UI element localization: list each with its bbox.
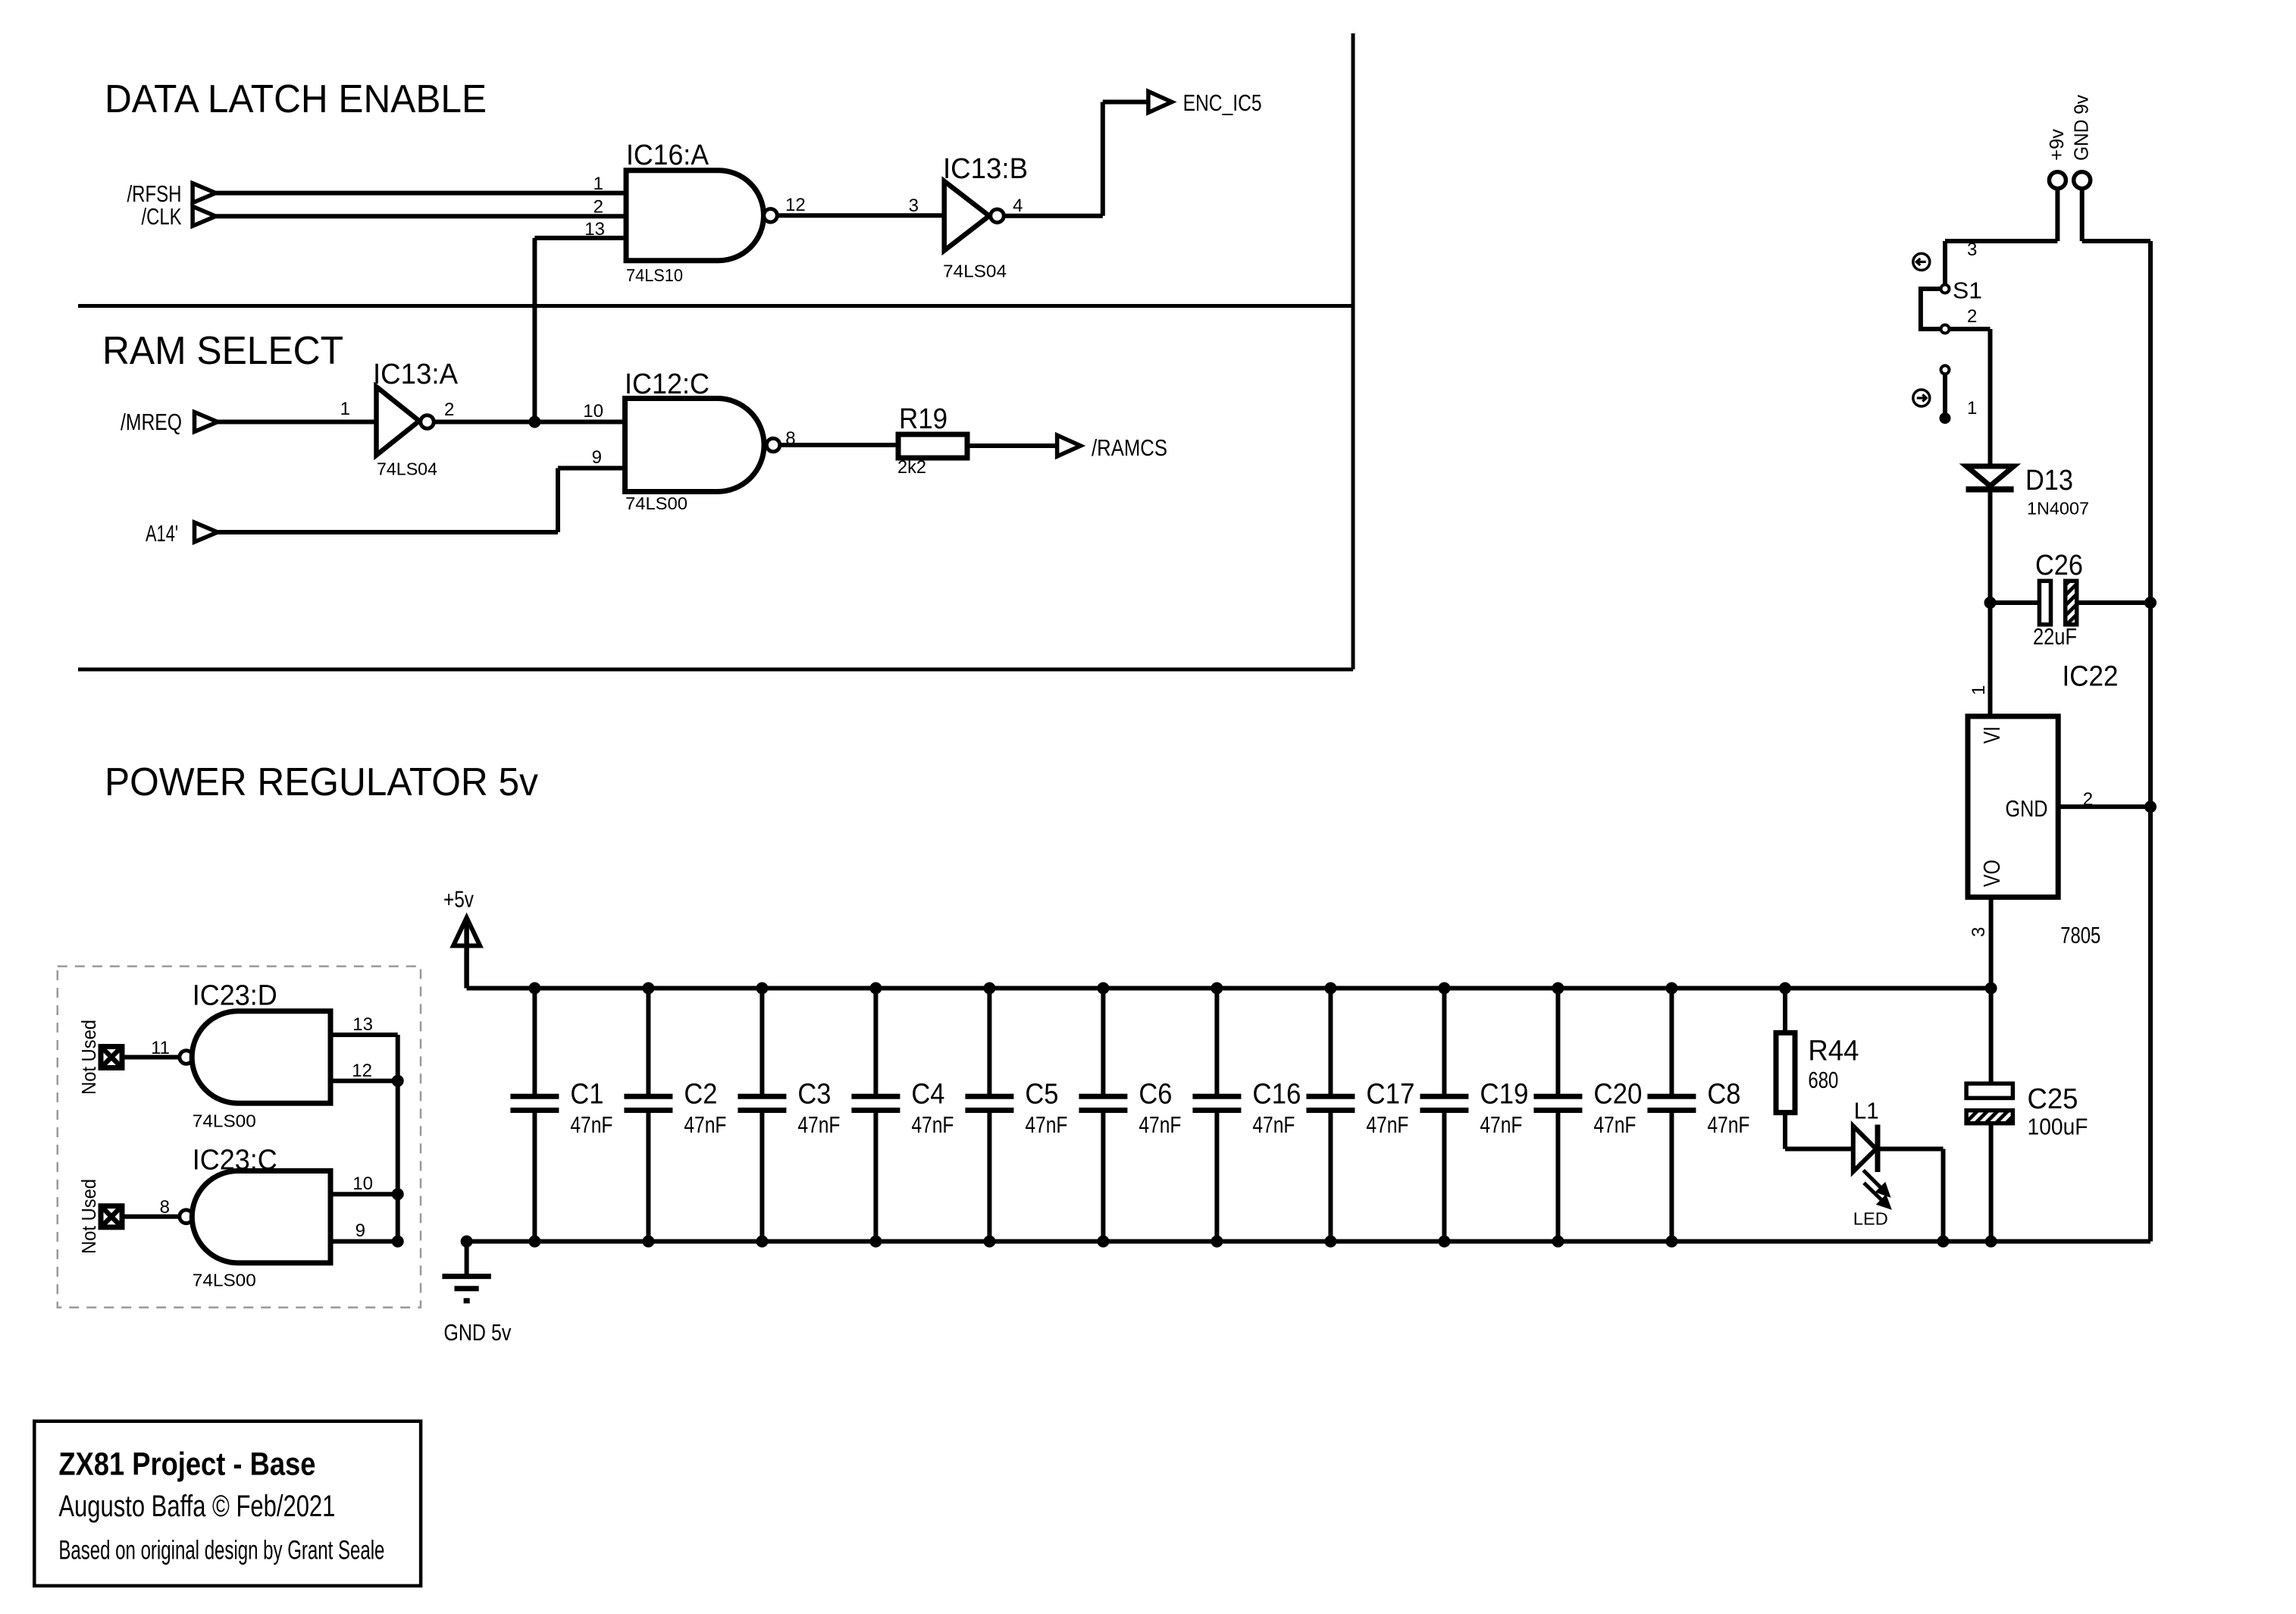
not-used terminal (IC23:D pin11)	[101, 1047, 122, 1068]
capacitor C25 plus plate	[1966, 1083, 2013, 1098]
capacitor C4 47nF	[873, 989, 878, 1095]
section right border	[1352, 33, 1355, 669]
svg-text:1: 1	[340, 399, 350, 419]
LED light arrow 1	[1863, 1171, 1887, 1195]
GND rail	[467, 1239, 2150, 1244]
svg-text:13: 13	[352, 1014, 373, 1035]
svg-text:Augusto Baffa © Feb/2021: Augusto Baffa © Feb/2021	[58, 1490, 335, 1523]
svg-text:74LS04: 74LS04	[377, 459, 437, 479]
wire /RFSH to IC16 pin1	[216, 191, 626, 196]
node pin12 junction	[392, 1075, 404, 1087]
wire IC12:C pin9 stub	[558, 466, 625, 471]
svg-text:/CLK: /CLK	[142, 203, 182, 230]
output port ENC_IC5 arrow	[1148, 92, 1172, 113]
wire LED to GND rail horizontal	[1878, 1147, 1944, 1152]
svg-text:47nF: 47nF	[570, 1111, 612, 1138]
svg-text:9: 9	[356, 1221, 365, 1241]
wire xbox to IC23:D	[122, 1055, 180, 1060]
capacitor C26 plus plate	[2039, 581, 2050, 625]
svg-text:74LS00: 74LS00	[625, 494, 688, 513]
svg-text:POWER REGULATOR 5v: POWER REGULATOR 5v	[105, 760, 538, 804]
diode D13 cathode bar	[1966, 487, 2014, 493]
svg-text:4: 4	[1013, 196, 1023, 216]
svg-text:DATA LATCH ENABLE: DATA LATCH ENABLE	[105, 77, 487, 121]
switch S1 pin1 terminal dot	[1940, 412, 1951, 424]
svg-text:C6: C6	[1139, 1079, 1172, 1111]
svg-text:1: 1	[1969, 685, 1989, 695]
wire S1 pin2 down to D13	[1988, 329, 1993, 466]
svg-text:9: 9	[592, 447, 602, 468]
wire /CLK to IC16 pin2	[216, 214, 626, 218]
port /CLK triangle	[193, 206, 216, 226]
wire IC13:B out	[1004, 214, 1103, 218]
svg-text:C25: C25	[2028, 1083, 2078, 1115]
svg-text:47nF: 47nF	[1366, 1111, 1408, 1138]
wire IC13:A out to IC12:C pin10	[434, 420, 625, 425]
svg-text:IC13:B: IC13:B	[943, 153, 1028, 185]
wire IC16 pin13 horizontal	[534, 236, 626, 240]
wire pin9 vertical	[556, 469, 560, 533]
svg-text:10: 10	[583, 401, 603, 422]
capacitor C25 hatched plate	[1966, 1111, 2013, 1124]
svg-text:LED: LED	[1853, 1208, 1888, 1228]
capacitor C16 47nF	[1214, 989, 1219, 1095]
svg-text:7805: 7805	[2060, 922, 2100, 948]
svg-text:3: 3	[1969, 927, 1989, 937]
svg-text:12: 12	[352, 1061, 372, 1081]
svg-text:R19: R19	[899, 403, 948, 435]
wire +9v to S1 pin3	[1943, 241, 1947, 284]
svg-text:100uF: 100uF	[2028, 1113, 2088, 1139]
svg-text:RAM SELECT: RAM SELECT	[102, 329, 343, 373]
svg-text:2: 2	[2083, 789, 2093, 810]
wire IC16 out to IC13:B	[778, 213, 944, 218]
svg-text:Not Used: Not Used	[77, 1179, 100, 1254]
svg-text:1: 1	[1967, 398, 1977, 418]
wire R44 to LED	[1785, 1147, 1853, 1152]
svg-text:C4: C4	[911, 1079, 944, 1111]
svg-text:R44: R44	[1808, 1036, 1859, 1067]
svg-text:ZX81 Project - Base: ZX81 Project - Base	[58, 1446, 315, 1482]
svg-text:IC16:A: IC16:A	[626, 139, 709, 171]
svg-text:IC23:C: IC23:C	[193, 1144, 277, 1176]
svg-text:47nF: 47nF	[1252, 1111, 1295, 1138]
svg-text:680: 680	[1808, 1067, 1838, 1093]
wire xbox to IC23:C	[122, 1214, 180, 1219]
node C25 on +5v rail	[1985, 983, 1997, 995]
svg-text:/MREQ: /MREQ	[121, 409, 182, 435]
wire IC22 VO down to +5v rail	[1989, 897, 1994, 988]
NAND gate IC12:C body 74LS00	[625, 399, 765, 492]
svg-text:C19: C19	[1480, 1079, 1528, 1111]
svg-text:47nF: 47nF	[1593, 1111, 1636, 1138]
switch S1 other throw contact	[1941, 365, 1950, 374]
bubble IC23:C output	[180, 1210, 193, 1224]
svg-text:8: 8	[160, 1197, 170, 1218]
svg-text:S1: S1	[1953, 277, 1982, 304]
svg-text:C20: C20	[1593, 1079, 1642, 1111]
wire GND 9v right	[2082, 239, 2150, 243]
LED L1 triangle	[1853, 1126, 1876, 1171]
switch S1 throw wire	[1943, 375, 1947, 413]
svg-text:13: 13	[584, 219, 605, 240]
wire R44 bottom	[1783, 1113, 1787, 1149]
svg-text:3: 3	[909, 196, 919, 216]
node LED on GND rail	[1937, 1236, 1950, 1248]
svg-text:1: 1	[594, 174, 603, 194]
svg-text:+9v: +9v	[2045, 129, 2068, 161]
capacitor C1 47nF	[532, 989, 537, 1095]
ground symbol GND 5v	[442, 1274, 490, 1279]
svg-text:1N4007: 1N4007	[2027, 499, 2089, 519]
port /MREQ triangle	[195, 412, 218, 432]
capacitor C5 47nF	[987, 989, 991, 1095]
node pin10 junction	[392, 1188, 404, 1200]
svg-text:IC13:A: IC13:A	[373, 359, 459, 390]
svg-text:47nF: 47nF	[1139, 1111, 1181, 1138]
switch S1 lever bracket	[1921, 289, 1940, 329]
svg-text:47nF: 47nF	[1480, 1111, 1522, 1138]
node R44 on +5v rail	[1779, 983, 1791, 995]
wire IC23:C pin9 stub	[330, 1239, 398, 1244]
svg-text:2k2: 2k2	[897, 457, 926, 478]
wire R44 top	[1783, 989, 1787, 1033]
svg-text:VI: VI	[1978, 726, 2005, 744]
svg-text:C5: C5	[1025, 1079, 1058, 1111]
bubble IC13:A output	[421, 415, 434, 429]
wire C25 bottom	[1989, 1124, 1994, 1242]
wire R19 to /RAMCS	[967, 443, 1057, 448]
port /RFSH triangle	[193, 183, 216, 203]
svg-text:/RAMCS: /RAMCS	[1092, 434, 1167, 461]
wire to ground symbol	[465, 1242, 469, 1277]
svg-text:VO: VO	[1978, 860, 2005, 887]
node junction pin2/pin13/pin10	[528, 416, 540, 428]
capacitor C6 47nF	[1101, 989, 1105, 1095]
NAND gate IC16:A body 74LS10	[626, 171, 763, 261]
svg-text:IC12:C: IC12:C	[625, 368, 709, 400]
output port /RAMCS arrow	[1057, 435, 1081, 456]
wire C26 node down to IC22 VI	[1988, 603, 1993, 716]
svg-text:74LS10: 74LS10	[626, 265, 683, 285]
svg-text:10: 10	[352, 1174, 373, 1194]
wire +9v left	[1945, 239, 2057, 243]
svg-text:C8: C8	[1707, 1079, 1740, 1111]
title block box	[34, 1421, 421, 1586]
svg-text:74LS04: 74LS04	[943, 262, 1007, 281]
capacitor C20 47nF	[1555, 989, 1560, 1095]
terminal GND 9v circle	[2074, 172, 2091, 189]
wire C26 to GND rail	[2077, 600, 2150, 605]
capacitor C19 47nF	[1442, 989, 1446, 1095]
resistor R19 body	[898, 434, 967, 458]
svg-text:47nF: 47nF	[1707, 1111, 1749, 1138]
svg-text:L1: L1	[1854, 1097, 1879, 1124]
switch S1 pin3 contact	[1941, 285, 1950, 293]
NAND gate IC23:C body 74LS00 (mirrored)	[192, 1171, 330, 1263]
wire +9v down	[2055, 189, 2060, 241]
bubble IC12:C output	[766, 438, 780, 452]
svg-text:D13: D13	[2025, 465, 2073, 497]
svg-text:Based on original design by Gr: Based on original design by Grant Seale	[58, 1536, 384, 1565]
svg-text:C16: C16	[1252, 1079, 1301, 1111]
svg-text:+5v: +5v	[443, 885, 474, 912]
wire A14' to pin9	[218, 530, 558, 534]
inverter IC13:A 74LS04	[377, 387, 420, 455]
svg-text:2: 2	[594, 197, 603, 218]
bubble IC23:D output	[180, 1051, 193, 1064]
wire IC23:D pin12	[330, 1079, 398, 1083]
capacitor C3 47nF	[760, 989, 764, 1095]
section divider: DATA LATCH ENABLE / RAM SELECT	[78, 304, 1353, 308]
switch S1 actuator symbol (up)	[1913, 253, 1930, 270]
terminal +9v circle	[2049, 172, 2066, 189]
resistor R44 body	[1776, 1033, 1795, 1112]
svg-text:12: 12	[785, 195, 806, 215]
svg-text:47nF: 47nF	[911, 1111, 954, 1138]
port A14' triangle	[195, 522, 218, 542]
NAND gate IC23:D body 74LS00 (mirrored)	[192, 1011, 330, 1104]
node C25 on GND rail	[1985, 1236, 1997, 1248]
capacitor C17 47nF	[1328, 989, 1333, 1095]
wire IC16 pin13 vertical to node	[532, 238, 537, 422]
wire to ENC_IC5 arrow	[1103, 100, 1148, 105]
svg-text:A14': A14'	[146, 520, 178, 547]
svg-text:2: 2	[1967, 306, 1977, 327]
svg-text:3: 3	[1967, 240, 1977, 260]
svg-text:22uF: 22uF	[2033, 623, 2077, 650]
wire IC23 feedback bus vertical	[396, 1035, 400, 1242]
power flag +5v arrow	[453, 918, 480, 946]
svg-text:2: 2	[444, 400, 454, 420]
node C26 on GND line	[2144, 597, 2157, 609]
wire GND 9v down	[2080, 189, 2085, 241]
node GND stub junction	[461, 1236, 473, 1248]
bubble IC16:A output	[764, 208, 778, 222]
wire up to ENC_IC5	[1101, 102, 1105, 216]
svg-text:C3: C3	[797, 1079, 831, 1111]
capacitor C26 hatched plate	[2066, 581, 2077, 625]
diode D13 1N4007 triangle	[1966, 466, 2013, 486]
wire IC23:D pin13	[330, 1033, 398, 1037]
svg-text:Not Used: Not Used	[77, 1020, 100, 1095]
capacitor C8 47nF	[1669, 989, 1674, 1095]
switch S1 pin2 contact	[1941, 325, 1950, 334]
svg-text:47nF: 47nF	[684, 1111, 726, 1138]
wire IC23:C pin10	[330, 1192, 398, 1196]
wire +5v arrow stem	[464, 923, 469, 989]
regulator IC22 7805 body	[1968, 716, 2058, 898]
svg-text:ENC_IC5: ENC_IC5	[1183, 89, 1262, 116]
not-used terminal (IC23:C pin8)	[101, 1206, 122, 1227]
svg-text:IC23:D: IC23:D	[193, 980, 277, 1012]
svg-text:C1: C1	[570, 1079, 603, 1111]
node D13/C26/IC22	[1984, 597, 1997, 609]
wire GND vertical line	[2148, 241, 2153, 1242]
wire /MREQ to IC13:A	[218, 420, 377, 425]
svg-text:C17: C17	[1366, 1079, 1414, 1111]
node IC22 GND on GND line	[2144, 801, 2157, 813]
svg-text:IC22: IC22	[2063, 661, 2119, 693]
svg-text:74LS00: 74LS00	[193, 1111, 256, 1131]
wire node to C26	[1991, 600, 2040, 605]
svg-text:C2: C2	[684, 1079, 717, 1111]
svg-text:GND 5v: GND 5v	[443, 1319, 511, 1346]
LED light arrow 2	[1864, 1183, 1889, 1207]
section divider: RAM SELECT bottom	[78, 668, 1353, 672]
wire C25 top	[1989, 989, 1994, 1084]
svg-text:GND: GND	[2006, 795, 2048, 822]
svg-text:47nF: 47nF	[797, 1111, 840, 1138]
svg-text:11: 11	[151, 1038, 170, 1058]
switch S1 actuator symbol (down)	[1913, 390, 1930, 406]
dashed box around unused gates	[58, 967, 421, 1308]
wire D13 to C26 node	[1988, 490, 1993, 603]
node pin9 junction on GND rail	[392, 1236, 404, 1248]
svg-text:74LS00: 74LS00	[193, 1271, 256, 1290]
svg-text:C26: C26	[2035, 550, 2083, 581]
svg-text:47nF: 47nF	[1025, 1111, 1067, 1138]
wire IC12:C out to R19	[780, 443, 898, 447]
capacitor C2 47nF	[646, 989, 650, 1095]
wire LED to GND rail vertical	[1941, 1149, 1946, 1242]
svg-text:GND 9v: GND 9v	[2070, 95, 2093, 161]
bubble IC13:B output	[991, 209, 1004, 223]
LED L1 cathode bar	[1875, 1125, 1881, 1173]
wire IC22 GND pin2	[2058, 804, 2150, 809]
wire S1 pin2 right	[1950, 327, 1991, 331]
+5v rail	[467, 986, 1991, 991]
inverter IC13:B 74LS04	[944, 181, 989, 251]
